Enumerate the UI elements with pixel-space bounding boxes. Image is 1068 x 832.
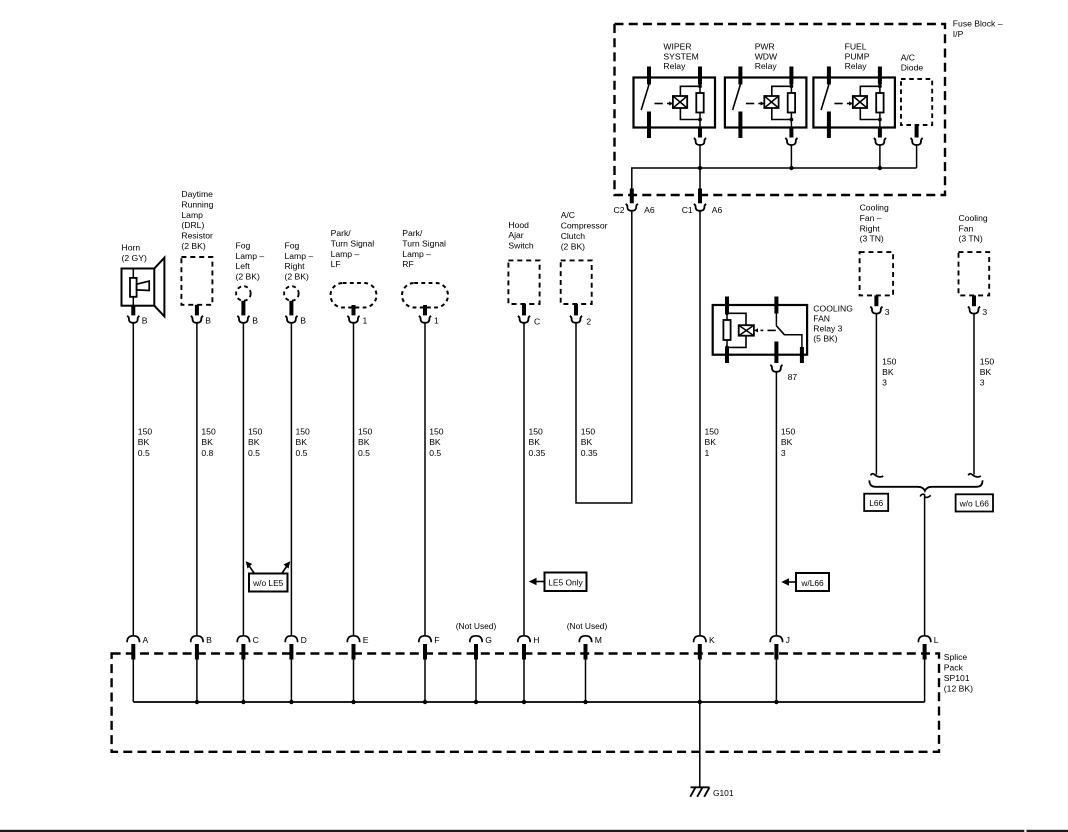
- svg-text:0.35: 0.35: [581, 448, 598, 458]
- wire label 150 BK 0.5 (E): [358, 427, 373, 458]
- svg-text:3: 3: [980, 378, 985, 388]
- splice terminal E label: [363, 635, 369, 645]
- svg-text:0.35: 0.35: [529, 448, 546, 458]
- svg-text:Splice: Splice: [944, 652, 968, 662]
- relay FUEL PUMP coil-resistor bracket top: [860, 84, 882, 96]
- svg-text:BK: BK: [201, 437, 213, 447]
- svg-text:w/L66: w/L66: [800, 578, 824, 588]
- label A6 (C1 pin): [712, 205, 723, 215]
- wire horn to splice A: [132, 323, 134, 636]
- relay PWR WDW resistor: [788, 93, 795, 113]
- option box L66: [864, 494, 888, 511]
- svg-text:150: 150: [296, 427, 311, 437]
- cooling fan relay pin top-left: [725, 297, 729, 314]
- svg-text:A/C: A/C: [901, 53, 915, 63]
- svg-text:BK: BK: [138, 437, 150, 447]
- svg-text:150: 150: [781, 427, 796, 437]
- ground G101 symbol: [690, 787, 709, 797]
- wire label 150 BK 0.5 (C): [248, 427, 263, 458]
- svg-text:Cooling: Cooling: [860, 203, 889, 213]
- wire fog right to splice D: [290, 323, 292, 636]
- park/turn LF connector cup: [347, 316, 359, 323]
- DRL resistor connector cup: [191, 316, 203, 323]
- A/C compressor clutch dashed box: [561, 260, 592, 304]
- splice terminal C connector arc: [237, 636, 249, 642]
- relay WIPER SYSTEM dashed link to coil: [655, 101, 674, 105]
- splice terminal E pin: [352, 644, 356, 660]
- wire A/C diode to bus: [916, 145, 918, 168]
- wire cooling fan down: [973, 314, 975, 475]
- cooling fan right connector cup: [870, 307, 882, 314]
- label (Not Used) splice G: [456, 621, 497, 631]
- svg-text:B: B: [205, 316, 211, 326]
- pin label 3 (fan): [982, 307, 987, 317]
- svg-text:(2 BK): (2 BK): [561, 241, 585, 251]
- svg-text:(2 BK): (2 BK): [181, 241, 205, 251]
- svg-text:(3 TN): (3 TN): [959, 234, 983, 244]
- svg-text:Left: Left: [236, 261, 251, 271]
- wire relay PWR WDW output to bus: [790, 145, 792, 168]
- cooling fan dashed box: [959, 252, 990, 295]
- junction dot splice bus F: [423, 700, 427, 704]
- splice terminal E connector arc: [347, 636, 359, 642]
- relay WIPER SYSTEM box: [634, 78, 716, 128]
- label A6 (C2 pin): [644, 205, 655, 215]
- wire splice K to ground: [699, 702, 701, 787]
- svg-text:w/o LE5: w/o LE5: [252, 578, 284, 588]
- svg-text:Fan: Fan: [959, 223, 974, 233]
- horn body box: [122, 269, 155, 306]
- svg-text:D: D: [301, 635, 307, 645]
- svg-text:A: A: [143, 635, 149, 645]
- splice terminal J pin: [774, 644, 778, 660]
- svg-text:L66: L66: [869, 498, 883, 508]
- wire label 150 BK 3 (fan right): [882, 356, 897, 387]
- splice terminal K internal wire: [699, 660, 701, 703]
- relay PWR WDW pin top-left: [738, 67, 742, 85]
- wire label 150 BK 0.8 (B): [201, 427, 216, 458]
- svg-text:E: E: [363, 635, 369, 645]
- svg-text:3: 3: [882, 378, 887, 388]
- arrow w/L66 to relay87 wire: [781, 578, 796, 586]
- svg-text:Horn: Horn: [122, 243, 141, 253]
- fog lamp right label: [285, 240, 314, 281]
- wire cooling fan right down: [875, 314, 877, 475]
- pin label 2 (A/C clutch): [586, 317, 591, 327]
- pin label B (DRL): [205, 316, 211, 326]
- svg-text:B: B: [142, 316, 148, 326]
- junction dot bus/C1: [698, 166, 702, 170]
- svg-text:A/C: A/C: [561, 210, 575, 220]
- cooling fan connector cup: [968, 307, 980, 314]
- splice terminal F pin: [423, 644, 427, 660]
- cooling fan relay coil bracket top: [727, 313, 746, 325]
- splice terminal C label: [253, 635, 259, 645]
- svg-text:BK: BK: [429, 437, 441, 447]
- svg-text:BK: BK: [781, 437, 793, 447]
- cooling fan pin: [972, 295, 976, 306]
- wire label 150 BK 3 (J): [781, 427, 796, 458]
- horn internal resistor: [130, 269, 137, 306]
- daytime running lamp resistor label: [181, 189, 213, 251]
- svg-text:WDW: WDW: [755, 51, 778, 61]
- fog lamp right connector cup: [285, 316, 297, 323]
- svg-text:F: F: [434, 635, 439, 645]
- fog lamp left label: [236, 240, 265, 281]
- splice terminal J internal wire: [775, 660, 777, 703]
- relay FUEL PUMP coil-resistor bracket bottom: [860, 108, 882, 121]
- splice terminal H pin: [522, 644, 526, 660]
- svg-text:BK: BK: [296, 437, 308, 447]
- relay FUEL PUMP pin top-left: [827, 67, 831, 85]
- splice terminal B connector arc: [191, 636, 203, 642]
- splice terminal B pin: [195, 644, 199, 660]
- svg-text:Diode: Diode: [901, 63, 924, 73]
- svg-text:(2 BK): (2 BK): [236, 272, 260, 282]
- svg-text:Turn Signal: Turn Signal: [402, 238, 446, 248]
- svg-text:BK: BK: [980, 367, 992, 377]
- fog lamp left pin: [241, 301, 245, 316]
- svg-text:w/o L66: w/o L66: [959, 498, 990, 508]
- splice terminal G label: [485, 635, 492, 645]
- relay PWR WDW pin top-right: [789, 67, 793, 94]
- wire merge to splice L: [924, 500, 926, 636]
- svg-text:2: 2: [586, 317, 591, 327]
- junction dot splice bus H: [522, 700, 526, 704]
- relay PWR WDW dashed link to coil: [746, 101, 765, 105]
- splice terminal C internal wire: [242, 660, 244, 703]
- wire label 150 BK 0.35 (H): [529, 427, 546, 458]
- svg-text:Right: Right: [285, 261, 306, 271]
- fog lamp left connector cup: [237, 316, 249, 323]
- splice terminal E internal wire: [353, 660, 355, 703]
- splice terminal K pin: [698, 644, 702, 660]
- svg-text:BK: BK: [705, 437, 717, 447]
- svg-text:0.5: 0.5: [429, 448, 441, 458]
- splice terminal F label: [434, 635, 439, 645]
- cooling fan relay contact wire: [785, 335, 802, 355]
- pin label 1 (park LF): [363, 316, 368, 326]
- svg-text:0.5: 0.5: [248, 448, 260, 458]
- merge curl: [920, 494, 931, 500]
- relay PWR WDW coil-resistor bracket top: [772, 84, 794, 96]
- splice terminal M pin: [584, 644, 588, 660]
- wire label 150 BK 0.5 (A): [138, 427, 153, 458]
- splice terminal K label: [709, 635, 715, 645]
- splice terminal D pin: [289, 644, 293, 660]
- junction dot splice bus B: [195, 700, 199, 704]
- svg-text:A6: A6: [644, 205, 655, 215]
- relay PWR WDW switch blade: [733, 85, 741, 111]
- svg-text:WIPER: WIPER: [663, 42, 691, 52]
- svg-text:Lamp –: Lamp –: [331, 249, 360, 259]
- cooling fan relay resistor: [723, 311, 730, 349]
- fog lamp left dashed circle: [236, 286, 251, 301]
- splice terminal B label: [206, 635, 212, 645]
- splice terminal A pin: [131, 644, 135, 660]
- svg-text:87: 87: [788, 372, 798, 382]
- hood ajar connector cup: [518, 316, 530, 323]
- svg-text:Clutch: Clutch: [561, 231, 586, 241]
- arrow w/o LE5 to fog right wire: [282, 561, 291, 573]
- relay WIPER SYSTEM coil-resistor bracket bottom: [680, 108, 701, 121]
- svg-text:Lamp –: Lamp –: [236, 251, 265, 261]
- park/turn signal lamp LF dashed outline: [331, 283, 377, 308]
- svg-text:Daytime: Daytime: [181, 189, 213, 199]
- svg-text:FUEL: FUEL: [845, 42, 867, 52]
- svg-text:(12 BK): (12 BK): [944, 684, 973, 694]
- svg-text:G101: G101: [713, 788, 734, 798]
- relay PWR WDW label: [755, 42, 778, 72]
- svg-text:RF: RF: [402, 259, 413, 269]
- splice terminal L label: [934, 635, 939, 645]
- junction dot splice bus M: [583, 700, 587, 704]
- horn flare: [154, 258, 164, 317]
- wire fog left to splice C: [242, 323, 244, 636]
- park/turn RF pin: [423, 305, 427, 315]
- label C1: [682, 205, 693, 215]
- splice terminal G connector arc: [470, 636, 482, 642]
- svg-text:I/P: I/P: [953, 29, 964, 39]
- svg-text:150: 150: [581, 427, 596, 437]
- wire park RF to splice F: [424, 323, 426, 636]
- wire A/C clutch to C2: [576, 211, 632, 503]
- svg-text:C: C: [534, 317, 540, 327]
- svg-text:Compressor: Compressor: [561, 221, 608, 231]
- wire label 150 BK 1 (K): [705, 427, 720, 458]
- cooling fan right dashed box: [860, 252, 894, 295]
- junction dot splice bus K: [698, 700, 702, 704]
- splice terminal G internal wire: [475, 660, 477, 703]
- splice terminal L internal wire: [924, 660, 926, 703]
- label G101: [713, 788, 734, 798]
- svg-text:0.5: 0.5: [138, 448, 150, 458]
- cooling fan right pin: [874, 295, 878, 306]
- svg-text:A6: A6: [712, 205, 723, 215]
- cooling fan relay pin 87: [774, 342, 778, 364]
- splice terminal K connector arc: [694, 636, 706, 642]
- svg-text:C1: C1: [682, 205, 693, 215]
- fog lamp right pin: [289, 301, 293, 316]
- splice terminal M connector arc: [579, 636, 591, 642]
- svg-text:150: 150: [248, 427, 263, 437]
- relay FUEL PUMP output pin: [879, 113, 881, 138]
- junction dot splice bus G: [474, 700, 478, 704]
- svg-text:SYSTEM: SYSTEM: [663, 51, 698, 61]
- svg-text:150: 150: [358, 427, 373, 437]
- fan wire end hook: [968, 474, 981, 477]
- splice pack bus: [133, 701, 924, 703]
- junction dot splice bus C: [241, 700, 245, 704]
- relay WIPER SYSTEM coil: [673, 96, 687, 108]
- A/C clutch connector cup: [570, 316, 582, 323]
- relay WIPER SYSTEM output pin: [699, 113, 701, 138]
- svg-text:BK: BK: [882, 367, 894, 377]
- relay PWR WDW output pin: [790, 113, 792, 138]
- junction dot bus/PWR WDW relay: [789, 166, 793, 170]
- svg-text:150: 150: [529, 427, 544, 437]
- pin label B (fog left): [252, 316, 258, 326]
- svg-text:M: M: [595, 635, 602, 645]
- svg-text:Relay: Relay: [755, 61, 778, 71]
- svg-text:Fog: Fog: [285, 240, 300, 250]
- relay FUEL PUMP switch blade: [821, 85, 829, 111]
- splice terminal F connector arc: [419, 636, 431, 642]
- splice terminal H internal wire: [523, 660, 525, 703]
- splice pack SP101 dashed border: [112, 654, 939, 752]
- wire relay FUEL PUMP output to bus: [879, 145, 881, 168]
- svg-text:Cooling: Cooling: [959, 213, 988, 223]
- svg-text:BK: BK: [581, 437, 593, 447]
- cooling fan relay coil bracket bottom: [727, 336, 746, 348]
- splice terminal A label: [143, 635, 149, 645]
- svg-text:Relay: Relay: [845, 61, 868, 71]
- cooling fan relay 3 box: [713, 305, 807, 355]
- svg-text:PWR: PWR: [755, 42, 775, 52]
- svg-text:150: 150: [705, 427, 720, 437]
- fog lamp right dashed circle: [284, 286, 299, 301]
- svg-text:Ajar: Ajar: [508, 230, 523, 240]
- splice terminal J label: [786, 635, 790, 645]
- svg-text:150: 150: [201, 427, 216, 437]
- connector C1 cup: [694, 204, 706, 211]
- relay WIPER SYSTEM resistor: [696, 93, 703, 113]
- A/C clutch pin: [574, 304, 578, 315]
- svg-text:G: G: [485, 635, 492, 645]
- svg-text:SP101: SP101: [944, 673, 970, 683]
- option box w/L66: [796, 573, 829, 591]
- park/turn signal lamp RF dashed outline: [402, 283, 448, 308]
- svg-text:Pack: Pack: [944, 662, 964, 672]
- svg-text:Lamp –: Lamp –: [402, 249, 431, 259]
- svg-text:Relay: Relay: [663, 61, 686, 71]
- A/C diode dashed box: [901, 79, 932, 125]
- A/C diode connector cup: [911, 138, 923, 145]
- A/C diode label: [901, 53, 924, 73]
- svg-text:Resistor: Resistor: [181, 231, 213, 241]
- svg-text:Switch: Switch: [508, 241, 534, 251]
- horn trumpet: [137, 281, 150, 290]
- horn connector cup: [127, 316, 139, 323]
- relay PWR WDW output connector cup: [785, 138, 797, 145]
- svg-text:Park/: Park/: [402, 228, 423, 238]
- merge brace (cooling fans): [869, 480, 982, 491]
- hood ajar pin: [522, 304, 526, 315]
- cooling fan relay pin bottom-left: [725, 347, 729, 363]
- horn pin: [131, 306, 135, 316]
- relay FUEL PUMP box: [813, 78, 895, 128]
- relay WIPER SYSTEM pin top-left: [647, 67, 651, 85]
- splice terminal F internal wire: [424, 660, 426, 703]
- splice terminal M label: [595, 635, 602, 645]
- arrow w/o LE5 to fog left wire: [246, 561, 255, 573]
- cooling fan relay pin bottom-right: [800, 347, 804, 363]
- svg-text:Relay 3: Relay 3: [813, 324, 842, 334]
- splice terminal D connector arc: [285, 636, 297, 642]
- svg-text:(Not Used): (Not Used): [567, 621, 608, 631]
- park/turn LF pin: [352, 305, 356, 315]
- splice terminal J connector arc: [770, 636, 782, 642]
- splice terminal A internal wire: [132, 660, 134, 703]
- svg-text:B: B: [300, 316, 306, 326]
- relay FUEL PUMP output connector cup: [874, 138, 886, 145]
- cooling fan relay 3 label: [813, 304, 853, 344]
- svg-text:3: 3: [885, 307, 890, 317]
- footer bar left: [0, 830, 1024, 832]
- svg-text:150: 150: [429, 427, 444, 437]
- svg-text:1: 1: [363, 316, 368, 326]
- park/turn signal lamp LF label: [331, 228, 375, 269]
- svg-text:L: L: [934, 635, 939, 645]
- relay PWR WDW coil-resistor bracket bottom: [772, 108, 794, 121]
- svg-text:Running: Running: [181, 199, 213, 209]
- cooling fan label: [959, 213, 988, 244]
- svg-text:J: J: [786, 635, 790, 645]
- option box w/o LE5: [249, 574, 288, 592]
- svg-text:LF: LF: [331, 259, 341, 269]
- daytime running lamp resistor dashed box: [181, 257, 212, 305]
- relay PWR WDW pin bottom-left: [738, 112, 742, 139]
- svg-text:C2: C2: [614, 205, 625, 215]
- relay WIPER SYSTEM pin bottom-left: [647, 112, 651, 139]
- svg-text:(5 BK): (5 BK): [813, 334, 837, 344]
- fuse block label 'Fuse Block - I/P': [953, 19, 1003, 39]
- relay PWR WDW coil: [764, 96, 778, 108]
- svg-text:3: 3: [982, 307, 987, 317]
- svg-text:150: 150: [980, 356, 995, 366]
- svg-text:H: H: [533, 635, 539, 645]
- splice terminal H label: [533, 635, 539, 645]
- wire label 150 BK 3 (fan): [980, 356, 995, 387]
- cooling fan relay pin top-center: [774, 297, 778, 326]
- cooling fan relay coil: [739, 325, 754, 336]
- svg-text:Right: Right: [860, 223, 881, 233]
- svg-text:B: B: [252, 316, 258, 326]
- svg-text:Turn Signal: Turn Signal: [331, 238, 375, 248]
- svg-text:BK: BK: [248, 437, 260, 447]
- relay FUEL PUMP label: [845, 42, 870, 72]
- splice terminal M internal wire: [585, 660, 587, 703]
- splice terminal L pin: [923, 644, 927, 660]
- label (Not Used) splice M: [567, 621, 608, 631]
- wire label 150 BK 0.35 (A/C clutch): [581, 427, 598, 458]
- svg-text:0.5: 0.5: [296, 448, 308, 458]
- wire label 150 BK 0.5 (D): [296, 427, 311, 458]
- splice terminal B internal wire: [196, 660, 198, 703]
- connector C2 cup: [626, 204, 638, 211]
- junction dot bus/FUEL PUMP relay: [878, 166, 882, 170]
- svg-text:150: 150: [138, 427, 153, 437]
- svg-text:(2 BK): (2 BK): [285, 272, 309, 282]
- connector cup 87: [770, 365, 782, 372]
- svg-text:Lamp: Lamp: [181, 210, 203, 220]
- svg-text:0.8: 0.8: [201, 448, 213, 458]
- svg-text:Park/: Park/: [331, 228, 352, 238]
- pin label B (horn): [142, 316, 148, 326]
- splice terminal A connector arc: [127, 636, 139, 642]
- DRL resistor pin: [195, 305, 199, 316]
- svg-text:Lamp –: Lamp –: [285, 251, 314, 261]
- svg-text:3: 3: [781, 448, 786, 458]
- park/turn RF connector cup: [419, 316, 431, 323]
- relay FUEL PUMP dashed link to coil: [834, 101, 853, 105]
- fan right wire end hook: [871, 474, 884, 477]
- junction dot splice bus D: [289, 700, 293, 704]
- option box w/o L66: [956, 494, 993, 511]
- junction dot splice bus J: [774, 700, 778, 704]
- footer bar right: [1027, 830, 1068, 832]
- relay WIPER SYSTEM pin top-right: [698, 67, 702, 94]
